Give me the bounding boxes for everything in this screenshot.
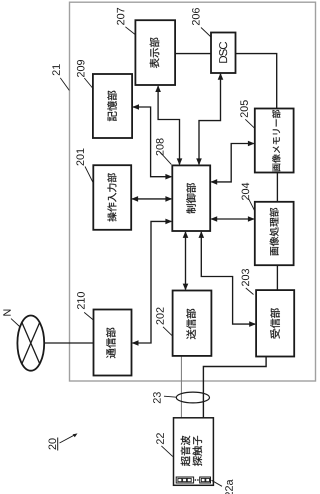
leader line 202 <box>163 327 172 336</box>
wire: communication 210 <-> control 208 <box>132 219 173 346</box>
label N <box>3 310 10 316</box>
leader line 210 <box>84 312 93 320</box>
leader line N <box>11 319 20 327</box>
label 205 <box>240 100 248 117</box>
wire: DSC 206 <-> control 208 <box>196 73 223 165</box>
text 画像処理部 <box>270 208 279 256</box>
block 操作入力部 (operation input) 201 <box>93 165 131 230</box>
label 22a <box>225 480 233 494</box>
label 210 <box>77 292 85 309</box>
probe 超音波探触子 (ultrasonic probe) 22 <box>174 418 214 486</box>
block 制御部 (control) 208 <box>172 165 210 231</box>
block 記憶部 (storage) 209 <box>93 74 132 138</box>
label 20 (system) with underline <box>49 438 58 451</box>
leader line 204 <box>249 199 255 211</box>
leader line 23 <box>164 396 176 397</box>
transducer element array 22a <box>176 477 210 483</box>
text DSC <box>219 42 227 63</box>
wire: control 208 <-> image memory 205 <box>210 141 254 185</box>
label 204 <box>242 183 250 200</box>
wire: storage 209 <-> control 208 <box>132 104 172 179</box>
text 通信部 <box>106 328 116 359</box>
wire: receiving 203 - probe <box>203 357 266 418</box>
block 表示部 (display) 207 <box>135 20 175 85</box>
leader line 206 <box>201 28 211 38</box>
label 22 <box>156 433 164 444</box>
text 制御部 <box>186 183 196 213</box>
leader line 22 <box>161 446 172 457</box>
leader line 209 <box>84 78 93 89</box>
block DSC 206 <box>211 33 236 74</box>
wire: control 208 <-> receiving 203 <box>199 231 257 327</box>
cable 23 (ellipse) <box>176 392 209 403</box>
wire: control 208 <-> image processing 204 <box>210 216 254 222</box>
label 208 <box>156 138 164 155</box>
label 209 <box>77 60 85 77</box>
block 送信部 (transmission) 202 <box>173 291 212 356</box>
wire: display 207 - DSC 206 <box>175 53 211 55</box>
text 画像メモリー部 <box>272 110 280 172</box>
label 21 <box>52 64 60 75</box>
leader line 208 <box>160 152 171 164</box>
wire: DSC 206 - image memory 205 <box>236 54 277 109</box>
leader arrow for 20 <box>60 433 78 443</box>
label 23 <box>153 392 161 403</box>
leader line 22a <box>212 480 223 486</box>
text 記憶部 <box>107 91 117 121</box>
wire: display 207 <-> control 208 <box>155 85 182 165</box>
main unit box 21 (ultrasound diagnostic apparatus body) <box>70 2 316 381</box>
text 超音波 <box>181 436 191 466</box>
leader line 201 <box>85 167 93 184</box>
network node N (circle with X) <box>17 316 44 371</box>
wire: image processing 204 - receiving 203 <box>276 265 278 290</box>
wire: control 208 <-> transmission 202 <box>183 231 189 290</box>
label 202 <box>156 308 164 325</box>
text 操作入力部 <box>107 173 116 221</box>
wire: operation input 201 <-> control 208 <box>131 196 172 202</box>
label 203 <box>242 269 250 286</box>
label 207 <box>117 8 125 25</box>
text 送信部 <box>186 309 196 339</box>
text 探触子 <box>193 436 203 466</box>
block 受信部 (receiving) 203 <box>256 290 294 356</box>
label 201 <box>76 149 84 166</box>
leader line 203 <box>246 288 254 295</box>
leader line 21 <box>60 78 69 91</box>
label 206 <box>192 8 200 25</box>
leader line 205 <box>245 119 254 128</box>
text 表示部 <box>150 38 160 69</box>
wire: network N - communication 210 <box>44 342 93 344</box>
block 画像処理部 (image processing) 204 <box>255 202 294 265</box>
wire: transmission 202 - probe <box>180 356 182 418</box>
wire: image memory 205 - image processing 204 <box>276 172 278 202</box>
block 通信部 (communication) 210 <box>94 310 132 376</box>
leader line 207 <box>125 27 135 35</box>
text 受信部 <box>270 308 280 338</box>
block 画像メモリー部 (image memory) 205 <box>255 109 294 173</box>
